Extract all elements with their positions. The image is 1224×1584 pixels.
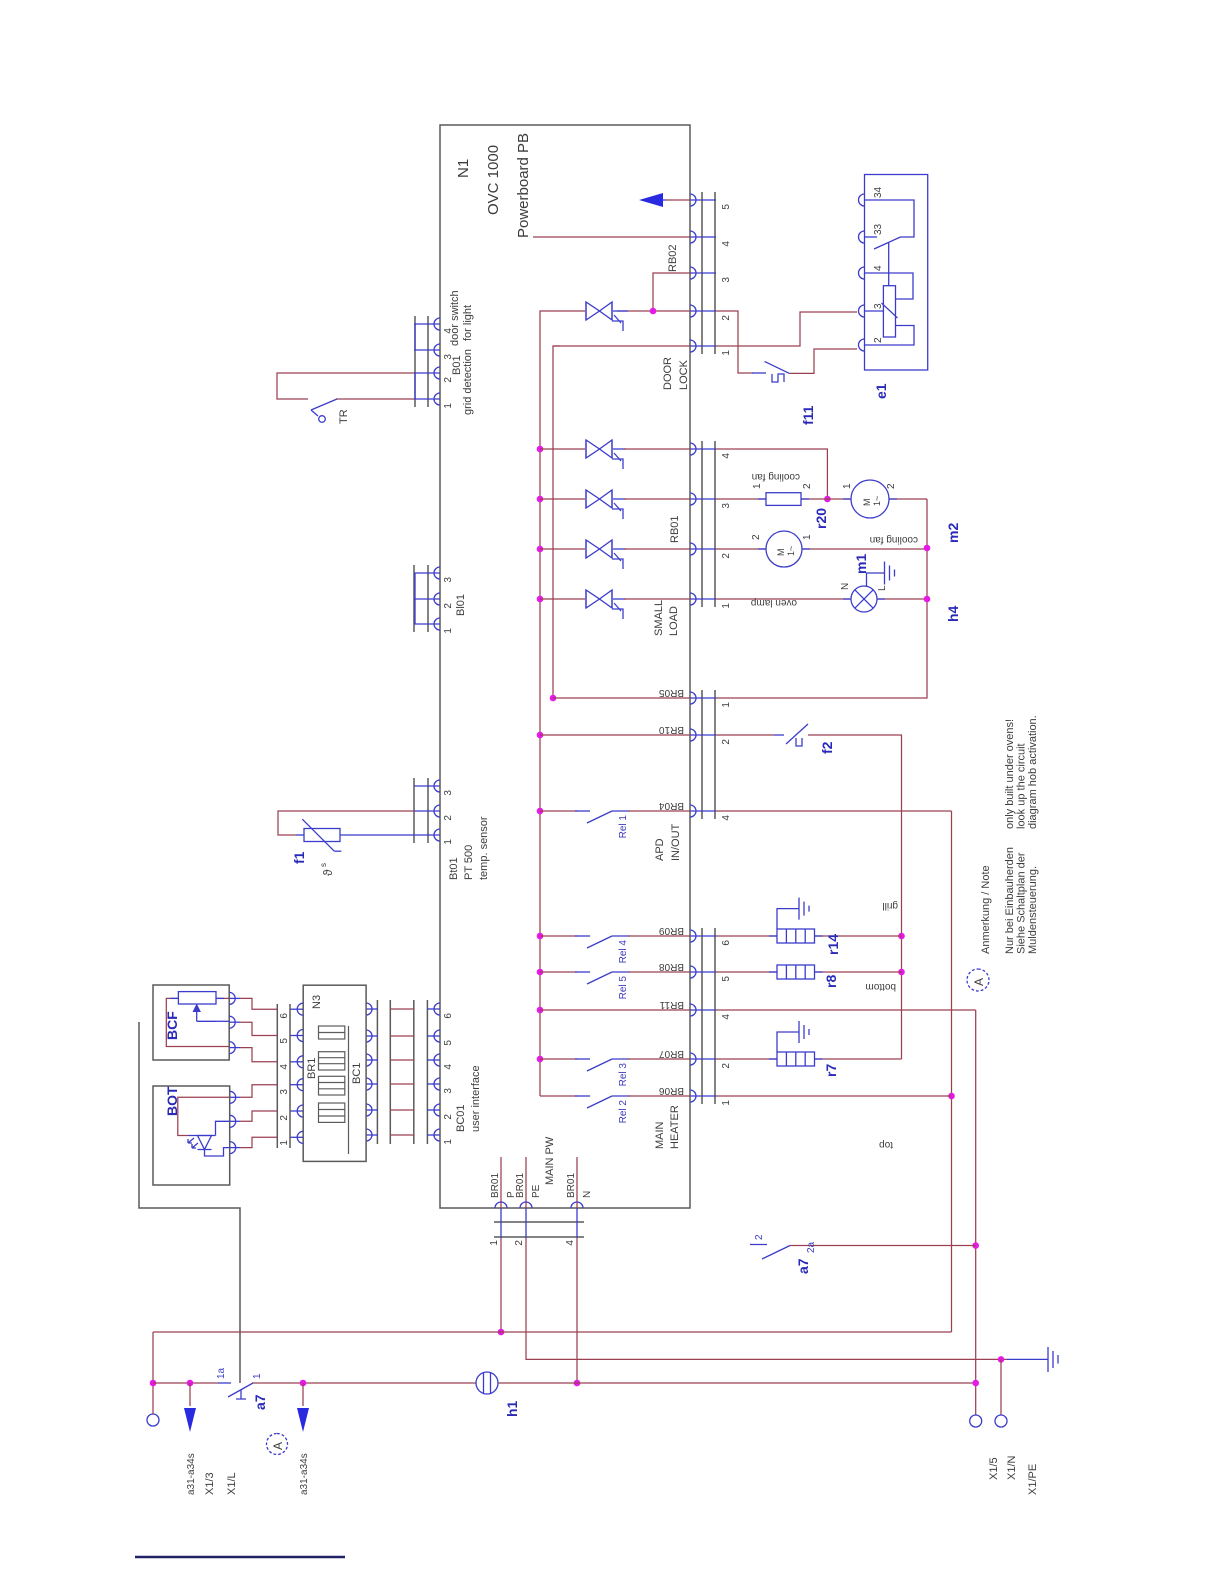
- triac DOOR LOCK: [586, 302, 623, 331]
- wires RB01 columns with triacs: [540, 449, 690, 599]
- svg-text:2: 2: [873, 337, 884, 343]
- svg-text:2: 2: [279, 1115, 290, 1121]
- svg-text:L: L: [877, 585, 888, 591]
- BC01 pins 1-6: [427, 1003, 440, 1141]
- svg-text:OVC 1000: OVC 1000: [485, 145, 502, 215]
- wire BR10 column: [540, 734, 690, 736]
- switch a7 pole 1: [218, 1382, 231, 1384]
- thermistor f1 loop: [278, 811, 414, 835]
- svg-text:MAIN PW: MAIN PW: [544, 1136, 556, 1185]
- panel BOT box: [153, 1086, 230, 1185]
- svg-text:m2: m2: [945, 523, 961, 543]
- junction dots on feed wire: [537, 1056, 544, 1063]
- svg-text:SMALL: SMALL: [653, 600, 665, 636]
- svg-text:Rel 5: Rel 5: [618, 976, 629, 1000]
- powerboard N1 box: [440, 125, 690, 1208]
- svg-text:N: N: [582, 1191, 593, 1198]
- triac RB01 pin3: [586, 490, 623, 519]
- thermistor f1: [304, 829, 340, 842]
- svg-text:diagram hob activation.: diagram hob activation.: [1027, 715, 1039, 829]
- svg-text:BR11: BR11: [659, 999, 684, 1010]
- relay Rel 5 (BR08): [540, 971, 577, 973]
- Bl01 pins 1-3: [414, 567, 440, 630]
- svg-text:Muldensteuerung.: Muldensteuerung.: [1027, 866, 1039, 954]
- relay Rel 1 (BR04): [540, 810, 577, 812]
- svg-text:h4: h4: [945, 605, 961, 622]
- svg-text:top: top: [879, 1139, 893, 1150]
- svg-text:34: 34: [873, 186, 884, 198]
- svg-text:2: 2: [514, 1240, 525, 1246]
- note reference circle A: [967, 969, 989, 991]
- svg-text:X1/PE: X1/PE: [1027, 1464, 1039, 1495]
- connector B01 body: [414, 316, 416, 407]
- wire RB02 pin1: [553, 345, 690, 347]
- relay Rel 2 (BR06): [540, 1095, 577, 1097]
- enclosure link to a7: [139, 1022, 240, 1383]
- svg-text:Bl01: Bl01: [455, 594, 467, 616]
- wire BR11 direct: [540, 1009, 690, 1011]
- internal wire RB02 pin1 to BR05: [553, 346, 560, 698]
- svg-text:3: 3: [443, 1088, 454, 1094]
- wire RB02 pin5 with arrow: [666, 199, 690, 201]
- svg-text:M: M: [862, 499, 872, 507]
- svg-text:RB01: RB01: [669, 515, 681, 543]
- switch f2: [774, 734, 784, 736]
- wire RB01 pin3 column: [716, 498, 766, 500]
- svg-text:BC01: BC01: [455, 1104, 467, 1132]
- svg-text:Rel 4: Rel 4: [618, 940, 629, 964]
- triac RB01 pin4: [586, 440, 623, 469]
- svg-text:4: 4: [443, 1064, 454, 1070]
- ground at h4: [867, 562, 895, 588]
- svg-text:5: 5: [721, 976, 732, 982]
- internal feed wire (triac/relay common): [540, 311, 585, 1096]
- L distribution line: [951, 811, 953, 1332]
- svg-text:2: 2: [443, 815, 454, 821]
- switch TR loop: [277, 373, 414, 399]
- svg-text:LOCK: LOCK: [678, 359, 690, 390]
- lamp h4: [851, 586, 877, 612]
- svg-text:BR05: BR05: [659, 687, 684, 698]
- wire RB02 pin4: [533, 236, 690, 238]
- relay Rel 3 (BR07): [540, 1058, 577, 1060]
- svg-text:h1: h1: [504, 1400, 520, 1417]
- svg-text:6: 6: [721, 940, 732, 946]
- svg-text:1: 1: [279, 1140, 290, 1146]
- wire L terminal feed: [152, 1332, 154, 1414]
- svg-text:2: 2: [754, 1234, 765, 1240]
- svg-text:2: 2: [886, 483, 897, 489]
- svg-text:APD: APD: [654, 838, 666, 861]
- svg-text:f11: f11: [800, 405, 816, 425]
- line A (L): [153, 1331, 952, 1333]
- svg-text:BC1: BC1: [351, 1063, 363, 1084]
- return wire BR05 to motors: [716, 499, 927, 698]
- wire BR10 to f2: [716, 734, 774, 736]
- connector MAIN HEATER body: [701, 928, 703, 1104]
- svg-text:grill: grill: [882, 900, 898, 911]
- LED in BOT: [178, 1097, 230, 1135]
- MAIN PW stubs: [500, 1157, 502, 1208]
- svg-text:N: N: [840, 583, 851, 590]
- svg-text:grid detection: grid detection: [462, 349, 474, 415]
- svg-text:s: s: [319, 863, 328, 867]
- wire RB01 pin1 column: [716, 598, 851, 600]
- svg-text:Rel 2: Rel 2: [618, 1100, 629, 1124]
- ground at r7: [777, 1021, 809, 1052]
- lamp h1: [476, 1372, 498, 1394]
- svg-text:door switch: door switch: [449, 290, 461, 346]
- wire RB01 pin4 jog: [716, 449, 827, 499]
- svg-text:3: 3: [721, 503, 732, 509]
- bank connector body: [276, 1004, 278, 1148]
- PE junction and terminal X1/PE: [998, 1356, 1005, 1363]
- svg-text:r20: r20: [813, 508, 829, 529]
- wire BR11 to N bus: [716, 1009, 976, 1011]
- svg-text:1: 1: [721, 350, 732, 356]
- wire MAIN PW P to L line: [500, 1238, 502, 1332]
- svg-text:IN/OUT: IN/OUT: [670, 823, 682, 861]
- svg-text:Anmerkung / Note: Anmerkung / Note: [980, 865, 992, 954]
- heater r14 (grill): [716, 935, 777, 937]
- svg-text:4: 4: [721, 453, 732, 459]
- RB01 pins 1-4: [690, 443, 716, 605]
- bank jog wires to BCF/BOT: [240, 998, 277, 1147]
- heater r8 (bottom): [716, 971, 777, 973]
- svg-text:MAIN: MAIN: [654, 1121, 666, 1149]
- svg-text:2: 2: [443, 1114, 454, 1120]
- resistor r20: [766, 493, 801, 506]
- svg-text:a31-a34s: a31-a34s: [299, 1453, 310, 1495]
- svg-text:Nur bei Einbauherden: Nur bei Einbauherden: [1004, 847, 1016, 954]
- svg-text:for light: for light: [462, 305, 474, 341]
- svg-text:cooling fan: cooling fan: [752, 471, 800, 482]
- svg-text:e1: e1: [873, 383, 889, 399]
- svg-text:X1/5: X1/5: [988, 1457, 1000, 1480]
- svg-text:6: 6: [279, 1013, 290, 1019]
- svg-text:BR01: BR01: [566, 1173, 577, 1198]
- relay Rel 4 (BR09): [540, 935, 577, 937]
- svg-text:2: 2: [751, 534, 762, 540]
- blue nubs at component terminals: [170, 499, 897, 1059]
- svg-text:only built under ovens!: only built under ovens!: [1004, 719, 1016, 829]
- junction dot BR05 line: [550, 695, 557, 702]
- wire BR05 column: [553, 697, 690, 699]
- svg-text:3: 3: [721, 277, 732, 283]
- svg-text:N1: N1: [455, 159, 472, 178]
- svg-text:PE: PE: [531, 1184, 542, 1198]
- svg-text:2: 2: [443, 377, 454, 383]
- svg-text:1: 1: [721, 603, 732, 609]
- svg-text:5: 5: [279, 1038, 290, 1044]
- potentiometer in BCF: [178, 992, 216, 1004]
- wire RB02 pin2 (triac output): [617, 310, 690, 312]
- svg-text:BR08: BR08: [659, 961, 684, 972]
- connector Bl01 body: [413, 565, 415, 632]
- svg-text:temp. sensor: temp. sensor: [478, 816, 490, 880]
- heater return line: [901, 735, 903, 1059]
- svg-text:2: 2: [721, 553, 732, 559]
- svg-text:4: 4: [873, 265, 884, 271]
- B01 pins 1-4: [414, 318, 440, 405]
- svg-text:TR: TR: [338, 409, 350, 424]
- svg-text:f1: f1: [291, 851, 307, 864]
- wire BR06 to L line: [716, 1095, 952, 1097]
- reference circle A: [267, 1434, 288, 1455]
- switch a7 pole 2: [750, 1244, 767, 1246]
- svg-text:1: 1: [252, 1373, 263, 1379]
- connector Bt01 body: [413, 778, 415, 843]
- svg-text:r8: r8: [823, 975, 839, 988]
- wire f11 to e1 pin2: [789, 349, 857, 373]
- svg-text:2: 2: [802, 483, 813, 489]
- connector RB02 body: [701, 192, 703, 354]
- ladder wires BC01-N3: [390, 1009, 414, 1135]
- DIP switch block BR1: [319, 1026, 345, 1039]
- svg-text:N3: N3: [311, 995, 323, 1009]
- svg-text:BR06: BR06: [659, 1085, 684, 1096]
- svg-text:r14: r14: [825, 934, 841, 955]
- triac RB01 pin1: [586, 590, 623, 619]
- wire RB02 pin3: [653, 273, 690, 311]
- motor m2: [851, 480, 889, 518]
- svg-text:user interface: user interface: [470, 1065, 482, 1132]
- svg-text:1~: 1~: [786, 546, 796, 556]
- svg-text:4: 4: [721, 815, 732, 821]
- door lock e1 box: [865, 175, 928, 371]
- svg-text:a7: a7: [252, 1394, 268, 1410]
- e1 pins: [859, 194, 865, 351]
- svg-text:4: 4: [721, 1014, 732, 1020]
- svg-text:1: 1: [443, 1139, 454, 1145]
- N3-side ladder connector body: [376, 1000, 378, 1144]
- svg-text:RB02: RB02: [667, 244, 679, 272]
- svg-text:HEATER: HEATER: [669, 1105, 681, 1149]
- svg-text:BR07: BR07: [659, 1048, 684, 1059]
- heater r7 (top): [716, 1058, 777, 1060]
- line B (switched L / N): [153, 1382, 218, 1384]
- earth ground PE: [1007, 1347, 1058, 1372]
- triac RB01 pin2: [586, 540, 623, 569]
- svg-text:1a: 1a: [216, 1367, 227, 1379]
- svg-text:5: 5: [721, 204, 732, 210]
- N bus: [975, 1010, 977, 1415]
- svg-text:BR01: BR01: [515, 1173, 526, 1198]
- svg-text:X1/3: X1/3: [204, 1472, 216, 1495]
- svg-text:1: 1: [443, 839, 454, 845]
- APD pins 4,2,1: [690, 692, 716, 817]
- svg-text:1: 1: [802, 534, 813, 540]
- svg-text:BR10: BR10: [659, 724, 684, 735]
- svg-text:r7: r7: [823, 1064, 839, 1077]
- svg-text:LOAD: LOAD: [668, 606, 680, 636]
- RB02 pins 1-5: [690, 194, 716, 352]
- ground at r14: [777, 898, 809, 929]
- svg-text:3: 3: [443, 577, 454, 583]
- terminal X1/5 X1/N: [970, 1415, 982, 1427]
- electronics N3 box: [303, 985, 366, 1161]
- switch f11: [752, 372, 766, 374]
- N3 bottom pins: [366, 1003, 378, 1141]
- connector MAIN PW body (left edge): [494, 1221, 584, 1223]
- svg-text:4: 4: [279, 1064, 290, 1070]
- Bt01 pins 1-3: [414, 780, 440, 841]
- switch TR: [311, 399, 337, 410]
- wire RB01 pin2 column: [716, 548, 766, 550]
- svg-text:DOOR: DOOR: [662, 357, 674, 390]
- svg-text:Bt01: Bt01: [448, 857, 460, 880]
- svg-text:X1/L: X1/L: [226, 1472, 238, 1495]
- svg-text:2: 2: [721, 315, 732, 321]
- connector APD body: [701, 690, 703, 819]
- BCF pins: [229, 992, 240, 1053]
- svg-text:Rel 3: Rel 3: [618, 1063, 629, 1087]
- svg-text:ϑ: ϑ: [321, 869, 335, 876]
- svg-text:bottom: bottom: [865, 981, 896, 992]
- svg-text:3: 3: [279, 1089, 290, 1095]
- svg-text:1: 1: [721, 1100, 732, 1106]
- wire RB02 pin2 to f11: [716, 311, 753, 373]
- N3 top pins: [290, 1003, 303, 1143]
- svg-text:Siehe Schaltplan der: Siehe Schaltplan der: [1016, 852, 1028, 954]
- junction dot pin2/pin3: [650, 308, 657, 315]
- svg-text:BR09: BR09: [659, 925, 684, 936]
- svg-text:2: 2: [443, 603, 454, 609]
- panel BCF box: [153, 985, 229, 1060]
- svg-text:Rel 1: Rel 1: [618, 815, 629, 839]
- e1 internals: [865, 200, 915, 345]
- svg-text:BR1: BR1: [306, 1058, 318, 1079]
- MAIN PW pins 1,2,4: [495, 1202, 583, 1238]
- motor m1: [766, 531, 802, 567]
- svg-text:X1/N: X1/N: [1006, 1455, 1018, 1480]
- footer page line: [135, 1556, 345, 1558]
- arrow a31-a34s upper: [187, 1380, 194, 1387]
- svg-text:cooling fan: cooling fan: [870, 534, 918, 545]
- svg-text:33: 33: [873, 223, 884, 235]
- svg-text:6: 6: [443, 1013, 454, 1019]
- terminal X1/3 X1/L: [147, 1414, 159, 1426]
- arrow a31-a34s lower: [300, 1380, 307, 1387]
- svg-text:a31-a34s: a31-a34s: [186, 1453, 197, 1495]
- svg-text:1: 1: [443, 628, 454, 634]
- svg-text:5: 5: [443, 1040, 454, 1046]
- svg-text:BR01: BR01: [490, 1173, 501, 1198]
- svg-text:4: 4: [721, 241, 732, 247]
- MAIN HEATER pins 1,2,4,5,6: [690, 930, 716, 1102]
- svg-text:M: M: [776, 549, 786, 557]
- svg-text:2a: 2a: [806, 1241, 817, 1253]
- svg-text:2: 2: [721, 1063, 732, 1069]
- svg-text:Powerboard PB: Powerboard PB: [515, 133, 532, 238]
- wire MAIN PW N to line B: [576, 1238, 578, 1383]
- svg-text:2: 2: [721, 739, 732, 745]
- svg-text:1~: 1~: [872, 496, 882, 506]
- svg-text:1: 1: [721, 702, 732, 708]
- svg-text:BR04: BR04: [659, 800, 684, 811]
- svg-text:4: 4: [565, 1240, 576, 1246]
- svg-text:1: 1: [489, 1240, 500, 1246]
- svg-text:1: 1: [443, 403, 454, 409]
- svg-text:PT 500: PT 500: [463, 845, 475, 880]
- wire BR04 to L line: [716, 810, 952, 812]
- svg-text:1: 1: [842, 483, 853, 489]
- svg-text:A: A: [271, 1442, 285, 1450]
- wire MAIN PW PE: [526, 1238, 1007, 1359]
- svg-text:f2: f2: [819, 741, 835, 754]
- connector RB01 body: [701, 441, 703, 607]
- BOT pins: [230, 1091, 240, 1153]
- wire RB02 pin1 to e1 pin3: [716, 312, 857, 346]
- svg-text:3: 3: [443, 790, 454, 796]
- svg-text:m1: m1: [853, 554, 869, 574]
- svg-text:oven lamp: oven lamp: [750, 597, 797, 608]
- svg-text:look up the circuit: look up the circuit: [1016, 743, 1028, 829]
- connector BC01 body: [413, 1000, 415, 1144]
- svg-text:a7: a7: [795, 1258, 811, 1274]
- svg-text:1: 1: [752, 483, 763, 489]
- svg-text:A: A: [972, 978, 986, 986]
